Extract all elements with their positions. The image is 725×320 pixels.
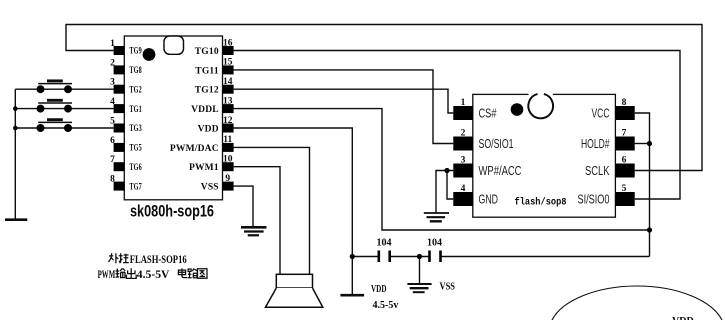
svg-text:14: 14 (223, 77, 233, 87)
svg-text:2: 2 (110, 58, 115, 68)
junction dot: WP#/GND tie (444, 168, 449, 173)
svg-text:GND: GND (479, 193, 499, 207)
svg-text:6: 6 (110, 136, 115, 146)
wire: U1 pin11 PWM/DAC to speaker (234, 147, 310, 274)
U1 left pin labels (129, 47, 142, 193)
svg-text:2: 2 (461, 129, 466, 139)
U2 left pin pads 1-4 (453, 106, 473, 206)
svg-text:4: 4 (110, 97, 115, 107)
wire: VSS junction down to ground (419, 257, 421, 284)
U2 pin numbers 1-4 (left) (461, 98, 466, 194)
U1 pin numbers 1-8 (left) (110, 39, 115, 185)
caption line 2: PWM输出4.5-5V 电路图 (98, 268, 207, 281)
U2 pin numbers 8-5 (right) (622, 98, 627, 194)
svg-text:HOLD#: HOLD# (581, 137, 610, 151)
svg-text:4.5-5v: 4.5-5v (373, 300, 399, 311)
U1 pin numbers 16-9 (right) (223, 38, 233, 184)
svg-text:SO/SIO1: SO/SIO1 (479, 137, 514, 151)
U2 top notch circle (529, 93, 553, 96)
U2 right pin labels (578, 107, 610, 207)
svg-text:SCLK: SCLK (585, 164, 610, 178)
svg-text:TG7: TG7 (129, 182, 142, 192)
ground: VSS cap junction (3-bar) (407, 284, 431, 292)
svg-text:7: 7 (622, 129, 627, 139)
junction dot: HOLD#/VCC net (647, 141, 652, 146)
svg-text:VCC: VCC (592, 107, 610, 121)
svg-text:TG1: TG1 (129, 105, 142, 115)
ground bar: key common rail VSS terminal (5, 218, 27, 221)
svg-text:4: 4 (461, 184, 466, 194)
svg-text:TG12: TG12 (195, 86, 219, 96)
wire: U1 pin14 TG12 to U2 pin1 CS# (234, 89, 454, 113)
capacitor C2 104 plates (430, 251, 441, 263)
U2 left pin labels (479, 107, 522, 207)
svg-text:3: 3 (110, 78, 115, 88)
svg-text:VSS: VSS (440, 282, 456, 293)
ground: U1 pin9 VSS (3-bar) (241, 227, 267, 235)
svg-text:11: 11 (223, 135, 232, 145)
push button S3 (37, 120, 73, 132)
svg-text:13: 13 (223, 96, 233, 106)
decorative arc (adjacent schematic bubble) (552, 286, 723, 320)
ground: U2 WP#/GND (3-bar) (424, 213, 449, 221)
wire: U1 pin15 TG11 to U2 pin2 SO/SIO1 (234, 70, 454, 144)
wire: key common rail to VSS bar (14, 89, 16, 219)
svg-text:8: 8 (110, 175, 115, 185)
svg-text:15: 15 (223, 58, 233, 68)
push button S2 (37, 100, 73, 112)
svg-text:VDDL: VDDL (191, 105, 219, 115)
svg-text:5: 5 (110, 116, 115, 126)
svg-text:1: 1 (461, 98, 466, 108)
power terminal bar: VDD (340, 294, 364, 297)
svg-text:12: 12 (223, 116, 233, 126)
junction dot: VDD/cap rail (350, 254, 355, 259)
U1 right pin pads 16-9 (223, 46, 234, 191)
junction dot: rail/S2 (13, 106, 18, 111)
svg-text:CS#: CS# (479, 107, 497, 121)
svg-text:PWM/DAC: PWM/DAC (170, 144, 219, 154)
svg-text:TG9: TG9 (129, 47, 142, 57)
svg-text:TG3: TG3 (129, 124, 142, 134)
svg-text:6: 6 (622, 156, 627, 166)
wire: decoupling cap rail (VDD to VCC net) (352, 256, 378, 258)
wire: key S3 row to U1 pin5 (15, 127, 113, 129)
svg-text:8: 8 (622, 98, 627, 108)
speaker LS1 (266, 274, 323, 307)
wire: U1 pin10 PWM1 to speaker (234, 167, 280, 275)
svg-text:flash/sop8: flash/sop8 (515, 197, 567, 209)
svg-text:1: 1 (110, 39, 115, 49)
IC U1 sk080h-sop16 body (124, 36, 222, 200)
svg-text:16: 16 (223, 38, 233, 48)
push button S1 (37, 81, 73, 93)
U2 right pin pads 8-5 (615, 106, 634, 206)
caption line 1: 外挂FLASH-SOP16 (109, 253, 187, 266)
svg-text:SI/SIO0: SI/SIO0 (578, 193, 610, 207)
wire: U2 pin7 HOLD# stub (635, 143, 650, 145)
svg-text:7: 7 (110, 155, 115, 165)
svg-text:VSS: VSS (201, 183, 219, 193)
wire: U1 pin9 VSS to ground (234, 186, 253, 226)
svg-text:9: 9 (225, 174, 230, 184)
wire: U1 pin13 VDDL to VCC net (234, 109, 650, 230)
svg-text:TG5: TG5 (129, 144, 142, 154)
svg-text:TG2: TG2 (129, 85, 142, 95)
svg-text:TG10: TG10 (195, 47, 219, 57)
junction dot: VSS/cap rail (417, 254, 422, 259)
svg-text:TG6: TG6 (129, 163, 142, 173)
capacitor C1 104 plates (379, 251, 390, 263)
wire: VCC net vertical (U2 pin8/pin7 tie to VDD rail) (635, 113, 650, 257)
U2 pin-1 indicator dot (511, 103, 524, 116)
wire: key S2 row to U1 pin4 (15, 108, 113, 110)
wire: U1 pin12 VDD down to VDD terminal (234, 128, 353, 295)
svg-text:3: 3 (461, 156, 466, 166)
svg-text:VDD: VDD (198, 124, 219, 134)
svg-text:PWM1: PWM1 (189, 163, 219, 173)
wire: U1 pin1 TG9 loop to U2 pin6 SCLK (top) (66, 25, 702, 171)
wire: key S1 row to U1 pin3 (15, 88, 113, 90)
svg-text:VDD: VDD (371, 284, 387, 295)
U1 right pin labels (170, 47, 219, 193)
svg-text:PWM: PWM (98, 269, 116, 281)
IC U2 flash/sop8 body (473, 94, 616, 217)
svg-text:TG11: TG11 (195, 66, 219, 76)
junction dot: VDDL/VCC net (647, 227, 652, 232)
wire: U2 pin3 WP#/ACC to ground (436, 171, 453, 213)
svg-text:10: 10 (223, 155, 233, 165)
svg-text:sk080h-sop16: sk080h-sop16 (130, 202, 214, 221)
svg-text:FLASH-SOP16: FLASH-SOP16 (130, 254, 187, 266)
svg-text:104: 104 (427, 238, 442, 249)
svg-text:TG8: TG8 (129, 66, 142, 76)
svg-text:104: 104 (377, 238, 392, 249)
U1 pin-1 indicator dot (143, 48, 156, 61)
wire: U1 pin16 TG10 to U2 pin5 SI/SIO0 (234, 51, 680, 200)
junction dot: rail/S3 (13, 126, 18, 131)
U1 top notch (164, 36, 184, 54)
wire: U2 pin4 GND tie to WP# net (447, 171, 453, 200)
svg-text:5: 5 (622, 184, 627, 194)
U1 left pin pads 1-8 (114, 46, 125, 191)
svg-text:WP#/ACC: WP#/ACC (479, 164, 522, 178)
svg-text:VDD: VDD (672, 316, 694, 320)
svg-text:4.5-5V: 4.5-5V (137, 269, 170, 281)
